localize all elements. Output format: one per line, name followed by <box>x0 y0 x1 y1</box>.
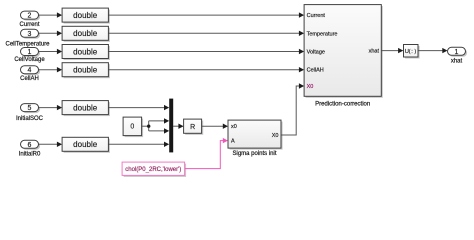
svg-text:InitialSOC: InitialSOC <box>16 116 44 122</box>
svg-text:A: A <box>231 139 235 145</box>
svg-text:5: 5 <box>28 105 32 112</box>
svg-text:CellTemperature: CellTemperature <box>5 41 50 47</box>
svg-text:Current: Current <box>307 13 326 19</box>
svg-text:x0: x0 <box>231 124 237 130</box>
svg-text:xhat: xhat <box>369 49 380 55</box>
svg-text:Sigma points init: Sigma points init <box>232 151 276 157</box>
svg-text:xhat: xhat <box>451 59 463 65</box>
svg-text:double: double <box>73 11 98 20</box>
svg-text:double: double <box>73 103 98 112</box>
svg-text:4: 4 <box>28 67 32 74</box>
svg-text:6: 6 <box>28 142 32 149</box>
svg-text:U(:): U(:) <box>405 49 417 55</box>
svg-text:1: 1 <box>28 49 32 56</box>
svg-text:CellVoltage: CellVoltage <box>14 57 45 63</box>
svg-text:2: 2 <box>28 13 32 20</box>
svg-text:InitialR0: InitialR0 <box>19 152 41 158</box>
svg-text:X0: X0 <box>307 84 314 90</box>
svg-text:double: double <box>73 140 98 149</box>
svg-text:X0: X0 <box>272 133 279 139</box>
svg-text:double: double <box>73 66 98 75</box>
svg-text:Temperature: Temperature <box>307 31 338 37</box>
svg-text:0: 0 <box>130 124 134 131</box>
svg-text:chol(P0_2RC,'lower'): chol(P0_2RC,'lower') <box>125 167 181 173</box>
svg-text:Current: Current <box>19 22 39 28</box>
svg-text:1: 1 <box>455 49 459 56</box>
svg-text:3: 3 <box>28 31 32 38</box>
svg-text:CellAH: CellAH <box>20 76 39 82</box>
svg-text:double: double <box>73 29 98 38</box>
svg-text:Voltage: Voltage <box>307 50 325 56</box>
svg-text:R: R <box>190 124 195 131</box>
svg-text:Prediction-correction: Prediction-correction <box>315 101 370 107</box>
svg-text:double: double <box>73 47 98 56</box>
svg-text:CellAH: CellAH <box>307 68 324 74</box>
